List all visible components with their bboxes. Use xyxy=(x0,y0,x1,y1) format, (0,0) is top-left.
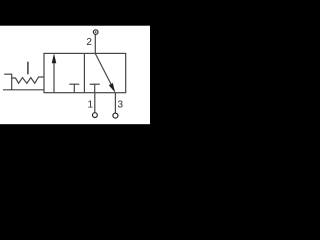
port 2 stem xyxy=(94,34,96,53)
diagonal flow path 2->3 (right square) xyxy=(95,53,114,90)
blocked port T (right square) stem xyxy=(94,84,96,93)
actuator base line xyxy=(3,89,44,91)
svg-text:2: 2 xyxy=(86,37,92,48)
port 2 connection circle with dot xyxy=(93,30,98,35)
plunger tick above spring xyxy=(27,62,29,75)
svg-text:3: 3 xyxy=(118,100,124,111)
blocked port T (left square) stem xyxy=(73,84,75,93)
svg-text:1: 1 xyxy=(88,99,94,110)
blocked port T (right square) crossbar xyxy=(90,83,100,85)
transparent band rendered black (top) xyxy=(0,0,150,26)
port 3 connection circle xyxy=(113,113,118,118)
position divider xyxy=(83,53,85,92)
spring end cap bar xyxy=(11,74,13,90)
port 3 stem xyxy=(114,93,116,113)
spring zigzag xyxy=(12,77,44,83)
flow arrowhead (right square diagonal, pointing down-right) xyxy=(109,83,115,93)
port 1 stem xyxy=(94,93,96,113)
blocked port T (left square) crossbar xyxy=(69,83,79,85)
valve body (two-position envelope) xyxy=(44,53,126,92)
flow arrow stem (left square) xyxy=(53,61,55,93)
port 1 connection circle xyxy=(93,113,98,118)
white drawing canvas xyxy=(0,26,150,125)
spring end cap top arm xyxy=(4,73,12,75)
transparent band rendered black (bottom) xyxy=(0,124,150,150)
flow arrowhead (left square, pointing up) xyxy=(52,53,57,63)
